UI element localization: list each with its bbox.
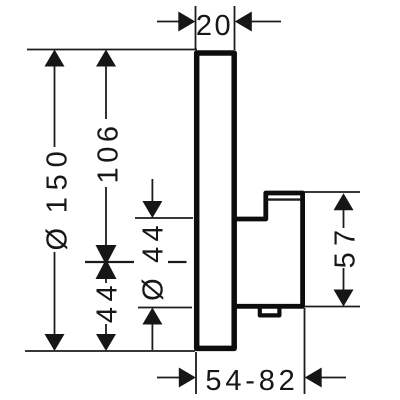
20 dim left tail	[157, 21, 179, 23]
dia150 dim line lower	[54, 252, 56, 336]
dia150 top arrow	[45, 50, 65, 67]
106 bottom arrow (bowtie upper)	[96, 245, 117, 265]
knob step inner line	[267, 198, 301, 200]
20 right extension line	[234, 6, 236, 50]
54-82 left extension line	[195, 352, 197, 394]
svg-text:Ø 150: Ø 150	[42, 144, 74, 250]
dimension lines	[55, 22, 347, 378]
dia44 top arrow (points down)	[142, 201, 162, 218]
44 dim line upper	[105, 277, 107, 283]
svg-text:Ø 44: Ø 44	[138, 220, 170, 301]
106 dim line upper	[105, 64, 107, 119]
57 top arrow	[334, 193, 354, 210]
centerline right segment	[168, 261, 187, 263]
dimension texts	[42, 10, 362, 397]
106 dim line lower	[105, 187, 107, 247]
dia44 dim bottom tail	[151, 323, 153, 350]
57 bottom extension line	[305, 306, 360, 308]
54-82 dim left tail	[157, 377, 180, 379]
centerline left segment	[85, 261, 134, 263]
svg-text:20: 20	[196, 10, 233, 42]
knob / handle outline	[237, 193, 303, 306]
44 bottom arrow	[96, 334, 116, 351]
54-82 right arrow	[305, 368, 322, 388]
57 bottom arrow	[334, 290, 354, 307]
top extension line	[27, 49, 197, 51]
20 dim right arrow	[235, 12, 252, 32]
57 top extension line	[303, 191, 360, 193]
20 left extension line	[195, 6, 197, 50]
arrowheads	[45, 12, 354, 388]
20 dim right tail	[251, 21, 281, 23]
bottom extension line	[25, 350, 195, 352]
54-82 left arrow	[179, 368, 196, 388]
svg-text:44: 44	[92, 280, 124, 323]
54-82 right extension line	[304, 308, 306, 394]
plate outline (side view)	[197, 53, 235, 348]
svg-text:54-82: 54-82	[205, 365, 298, 397]
knob bottom tab	[260, 307, 280, 316]
svg-text:106: 106	[93, 122, 125, 184]
dia150 dim line upper	[54, 64, 56, 147]
57 dim lower tail	[343, 268, 345, 290]
44 top arrow (bowtie lower)	[96, 259, 117, 279]
dia44 dim top tail	[151, 179, 153, 202]
svg-text:57: 57	[330, 224, 362, 269]
dia44 bottom arrow (points up)	[142, 308, 162, 325]
dia150 bottom arrow	[45, 334, 65, 351]
44 dim line lower	[105, 324, 107, 336]
54-82 dim right tail	[321, 377, 346, 379]
57 dim upper tail	[343, 209, 345, 228]
20 dim left arrow	[178, 12, 195, 32]
106 top arrow	[96, 50, 116, 67]
knob bottom extension line	[138, 307, 192, 309]
knob top extension line	[135, 217, 193, 219]
